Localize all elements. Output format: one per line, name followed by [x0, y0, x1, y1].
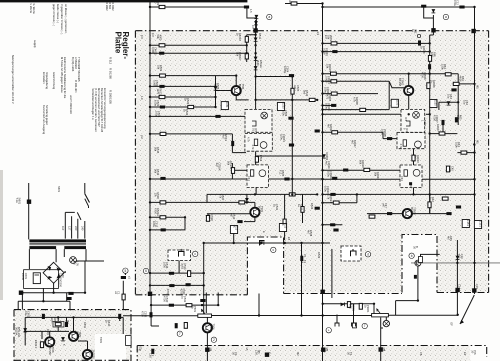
circled label F — [177, 331, 182, 336]
R col row 152.6 — [457, 152, 474, 154]
svg-text:EF: EF — [450, 323, 454, 327]
capacitor C509 — [284, 178, 289, 181]
transistor T601 — [45, 337, 54, 346]
L vert 246.7 — [247, 35, 256, 62]
resistor R601A — [159, 5, 165, 8]
capacitor C506 — [288, 117, 293, 120]
svg-text:M2: M2 — [296, 352, 300, 356]
resistor R3920 — [412, 155, 415, 161]
mains: left lead — [28, 183, 30, 239]
svg-text:100u: 100u — [324, 103, 328, 109]
svg-text:10u: 10u — [446, 94, 450, 99]
block row 331.4 — [50, 331, 88, 350]
potentiometer P3901 — [372, 309, 389, 317]
diode D601 — [23, 328, 27, 332]
fuse F1 — [300, 256, 303, 261]
L row 107 — [150, 106, 216, 108]
svg-text:3.2: 3.2 — [140, 135, 144, 139]
svg-text:IC1: IC1 — [404, 117, 408, 122]
capacitor C515 — [169, 284, 174, 287]
capacitor C512 — [161, 228, 166, 231]
capacitor C513B — [237, 220, 242, 223]
svg-text:M8: M8 — [209, 348, 213, 352]
T3902 emitter collector — [408, 74, 410, 115]
svg-text:+: + — [328, 328, 330, 332]
selector leads — [65, 212, 85, 238]
svg-text:supply: supply — [33, 40, 37, 48]
svg-text:4u7: 4u7 — [221, 135, 225, 140]
T501 collector — [236, 95, 249, 100]
resistor R42 — [428, 202, 431, 208]
diode in notch1 — [260, 241, 264, 245]
svg-text:100u: 100u — [326, 171, 330, 177]
vert 218.2 — [217, 293, 219, 306]
resistor R521A — [160, 216, 166, 219]
T501 emitter — [235, 76, 237, 87]
svg-text:56k: 56k — [226, 161, 230, 166]
connector L151d — [474, 221, 481, 229]
capacitor R514 — [231, 141, 234, 146]
svg-text:M 5 bzw. M 105 gegen Masse: M 5 bzw. M 105 gegen Masse — [60, 57, 64, 93]
L row 97 — [150, 96, 216, 98]
svg-text:1000u: 1000u — [21, 273, 25, 281]
circle letters — [125, 15, 448, 342]
capacitor C3908 — [387, 137, 392, 140]
bottom mid row 303.8 — [323, 303, 374, 305]
svg-text:R3907: R3907 — [436, 124, 440, 132]
svg-text:9.0: 9.0 — [140, 35, 144, 39]
capacitor C605 — [65, 322, 68, 327]
svg-text:53k: 53k — [325, 64, 329, 69]
resistor R601T — [122, 294, 125, 300]
capacitor C3906 — [428, 64, 431, 69]
svg-text:4700: 4700 — [166, 289, 170, 295]
hook in dashed box L — [179, 249, 185, 257]
svg-text:4u7: 4u7 — [324, 161, 328, 166]
svg-text:beide masse [--]: beide masse [--] — [56, 4, 60, 24]
pad mains left — [19, 291, 23, 295]
resistor R3914 — [333, 201, 339, 204]
svg-text:53k: 53k — [156, 65, 160, 70]
svg-text:150k: 150k — [454, 142, 458, 148]
capacitor C47 — [387, 212, 392, 215]
resistor R64 — [445, 73, 451, 76]
vert 151.1 — [151, 295, 159, 326]
svg-text:b: b — [411, 254, 413, 258]
notch2 border — [402, 235, 437, 293]
capacitor C12 — [459, 6, 464, 9]
svg-text:4.7k: 4.7k — [251, 145, 255, 151]
svg-text:100u: 100u — [154, 111, 158, 117]
resistor R608 — [40, 342, 43, 348]
top right wire — [323, 7, 474, 35]
resistor R43 — [442, 197, 448, 200]
svg-text:10u: 10u — [462, 100, 466, 105]
notch2 transistor drop — [396, 266, 418, 300]
svg-text:56k: 56k — [373, 172, 377, 177]
svg-text:R529: R529 — [317, 252, 321, 259]
capacitor C3912 — [330, 223, 335, 226]
L row 229.9 — [150, 229, 185, 231]
notch1 hook — [260, 241, 265, 246]
R row 170.3 — [323, 169, 401, 171]
stipple: main board region — [135, 31, 488, 295]
svg-text:9.0: 9.0 — [151, 33, 155, 37]
svg-text:BC158: BC158 — [75, 331, 79, 339]
svg-text:4k7: 4k7 — [350, 140, 354, 145]
svg-text:C30: C30 — [322, 348, 326, 353]
resistor R520 — [239, 201, 245, 204]
svg-text:2: 2 — [213, 338, 215, 342]
strip pad 1 — [205, 348, 209, 352]
R row 213.6 — [367, 213, 449, 215]
svg-text:C3200/2200: C3200/2200 — [58, 273, 62, 288]
L row 99.9 — [256, 99, 318, 101]
L row 273.1 — [150, 272, 204, 274]
box around C601 — [24, 270, 59, 289]
white inner area of power block — [95, 334, 126, 361]
diode D514 — [245, 198, 249, 202]
svg-text:1151: 1151 — [396, 100, 400, 106]
circled label 5 — [123, 268, 128, 273]
R col vert 458.2 — [457, 84, 459, 125]
T3904 thin circle — [383, 320, 389, 326]
svg-text:127: 127 — [68, 226, 72, 231]
pad bus bottom — [321, 290, 325, 294]
resistor R3908B — [360, 108, 366, 111]
svg-text:41u: 41u — [24, 311, 28, 316]
circle5 stub — [123, 273, 125, 309]
block row 317.4 — [25, 316, 123, 318]
svg-text:1000p: 1000p — [283, 66, 287, 74]
resistor R522 — [188, 105, 194, 108]
resistor R502 — [160, 74, 166, 77]
row 262.9 long (faint) — [411, 262, 500, 264]
svg-text:BC158: BC158 — [238, 84, 242, 92]
pot1 chain — [206, 293, 207, 361]
svg-text:L151: L151 — [466, 220, 470, 226]
L vert 232.4 low — [231, 163, 233, 179]
resistor R516 — [255, 156, 258, 162]
resistor R3904 — [331, 72, 337, 75]
R col row 83.9 — [453, 74, 475, 84]
power block right box — [126, 336, 132, 346]
EF diagonal — [460, 295, 474, 324]
svg-text:TL1: TL1 — [278, 170, 282, 175]
capacitor C606 — [66, 297, 71, 300]
pad 474 — [472, 288, 476, 292]
IC box U3902b right — [397, 133, 425, 149]
R row 224.8 — [323, 224, 343, 226]
transistor glyph in Rbox2 — [415, 141, 422, 148]
resistor R531 — [186, 304, 192, 307]
svg-text:BC158: BC158 — [398, 78, 402, 86]
pad right bus — [471, 29, 475, 33]
switch S601 diag1 — [85, 194, 90, 203]
row 301.2 — [18, 300, 70, 302]
resistor R3902A — [245, 53, 248, 59]
L row 75.6 — [150, 75, 236, 77]
transistor glyph in Lbox2 — [260, 142, 267, 149]
R row 194.4 long — [323, 193, 475, 195]
right mid bus — [429, 35, 431, 214]
svg-text:Gleichrichtung: Gleichrichtung — [52, 72, 56, 90]
svg-text:100u: 100u — [279, 134, 283, 140]
capacitor C3909 — [332, 177, 337, 180]
transistor T504 — [203, 323, 212, 332]
capacitor C3907 — [442, 120, 445, 125]
power verticals — [18, 261, 85, 310]
L row 285.4 — [150, 284, 204, 286]
svg-text:C15: C15 — [475, 284, 479, 289]
IC box U501a left — [245, 109, 272, 132]
L vert 203.7 — [203, 243, 205, 315]
svg-text:T.1A: T.1A — [15, 198, 19, 203]
svg-text:17k: 17k — [218, 194, 222, 199]
svg-text:C30: C30 — [148, 353, 152, 358]
svg-text:D: D — [409, 185, 413, 187]
svg-text:B (20)-1306: B (20)-1306 — [71, 57, 75, 72]
resistor R3907 — [439, 132, 445, 135]
diode C13 — [456, 256, 460, 260]
svg-text:an Masse [--] gemessen,: an Masse [--] gemessen, — [64, 4, 68, 34]
svg-text:u47: u47 — [207, 215, 211, 220]
junction blob C601b — [42, 314, 45, 319]
svg-text:4k7: 4k7 — [446, 236, 450, 241]
L row 53.2 — [150, 52, 247, 54]
resistor R3932 — [359, 303, 362, 309]
R vert 429.7 low — [429, 194, 431, 213]
L vert hooks — [178, 257, 180, 274]
svg-text:d: d — [367, 253, 369, 257]
svg-text:u47: u47 — [381, 203, 385, 208]
svg-text:0.068: 0.068 — [324, 76, 328, 83]
capacitor C3911 — [456, 206, 461, 209]
diode D503 — [214, 86, 218, 90]
capacitor C514 — [188, 271, 191, 277]
svg-text:Kurzschluß am Ausgang: Kurzschluß am Ausgang — [42, 105, 46, 135]
capacitor C503 — [160, 106, 165, 109]
svg-text:9.0: 9.0 — [251, 25, 255, 29]
circled label A left — [267, 14, 272, 19]
svg-text:5k6: 5k6 — [302, 90, 306, 95]
connector S1153 — [430, 100, 437, 108]
IC box U3903 right — [400, 165, 422, 187]
capacitor C3911B — [446, 212, 451, 215]
svg-text:1A3: 1A3 — [300, 254, 304, 259]
connector 1153 — [277, 103, 284, 111]
capacitor C521 — [283, 219, 286, 225]
svg-text:220: 220 — [74, 226, 78, 231]
svg-text:7: 7 — [179, 332, 181, 336]
pad left bus bottom — [148, 292, 152, 296]
svg-text:u47: u47 — [293, 85, 297, 90]
notch2 transistor — [415, 260, 421, 266]
svg-text:17k: 17k — [326, 195, 330, 200]
IC box U3902a right — [401, 109, 425, 132]
svg-text:L151: L151 — [478, 221, 482, 227]
svg-text:7: 7 — [364, 324, 366, 328]
svg-text:1000: 1000 — [162, 262, 166, 268]
border main right — [488, 31, 490, 293]
L row 221.6 — [244, 221, 255, 223]
fuse black square T.1A — [27, 200, 31, 204]
blob in Rbox3 — [409, 182, 412, 185]
resistor R521 — [301, 207, 304, 213]
svg-text:4k7: 4k7 — [456, 115, 460, 120]
diode D500b — [254, 21, 258, 25]
top feed drop left w/ diode chain — [247, 7, 257, 31]
svg-text:M2: M2 — [66, 320, 70, 324]
capacitor C601 — [33, 273, 40, 284]
svg-text:1.9: 1.9 — [140, 96, 144, 100]
svg-text:V gegenüber Chassis [--],: V gegenüber Chassis [--], — [60, 4, 64, 35]
svg-text:9.0: 9.0 — [324, 35, 328, 39]
capacitor C502 — [159, 85, 164, 88]
R row 73.7 — [323, 73, 459, 75]
svg-text:M5: M5 — [476, 85, 480, 89]
pot2 chain — [380, 318, 382, 361]
IC box U502 left — [247, 165, 269, 188]
capacitor C4002 — [159, 52, 164, 55]
left winding leads — [29, 249, 56, 269]
svg-text:0.068: 0.068 — [151, 47, 155, 54]
circled label B — [409, 253, 414, 258]
svg-text:4k15: 4k15 — [213, 83, 217, 89]
potentiometer P501 — [198, 310, 212, 318]
transformer primary bar — [29, 239, 86, 242]
tiny circle below border right — [417, 34, 420, 37]
svg-text:1153: 1153 — [434, 100, 438, 106]
L vert 284.6 — [284, 194, 286, 240]
svg-text:C43: C43 — [247, 176, 251, 181]
svg-text:R524: R524 — [310, 203, 314, 210]
left bus — [149, 2, 151, 295]
svg-text:BF121: BF121 — [209, 324, 213, 332]
svg-text:Platte: Platte — [114, 32, 123, 54]
svg-text:C30: C30 — [254, 350, 258, 355]
strip pad 2 — [265, 353, 269, 357]
svg-text:4k15: 4k15 — [458, 76, 462, 82]
svg-text:E1: E1 — [139, 347, 143, 351]
connector 1151 — [221, 102, 228, 110]
R col row 133.6 — [430, 125, 458, 134]
svg-text:n. Werte: n. Werte — [29, 3, 33, 14]
diode D512 — [254, 57, 258, 61]
svg-text:E: E — [262, 231, 266, 233]
svg-text:4700: 4700 — [141, 311, 145, 317]
L rows 133.9 152.6 — [150, 134, 246, 153]
svg-text:M5: M5 — [476, 140, 480, 144]
border main bottom — [135, 293, 488, 295]
svg-text:a: a — [268, 15, 270, 19]
svg-text:M8: M8 — [382, 348, 386, 352]
transistor glyph in Lbox3 — [259, 170, 266, 177]
row 292.7 — [20, 292, 85, 294]
strip pad 4 — [379, 347, 383, 351]
L row 76.5 to cap — [256, 76, 293, 78]
resistor R513 — [309, 98, 315, 101]
R row 51.6 — [323, 51, 430, 53]
capacitor C11 — [418, 40, 421, 45]
resistor R3919 — [364, 168, 370, 171]
resistor R3906 — [427, 83, 430, 89]
svg-text:1u63: 1u63 — [180, 263, 184, 269]
circled label Z — [211, 337, 216, 342]
capacitor C64 — [451, 88, 456, 91]
pad left bus — [253, 28, 257, 32]
resistor R3905 — [331, 80, 337, 83]
svg-text:a: a — [445, 15, 447, 19]
svg-text:4700: 4700 — [162, 296, 166, 302]
diode D3903 — [322, 154, 326, 158]
L row 194.4 long — [207, 194, 317, 202]
L row 179 long — [150, 178, 323, 180]
svg-text:E2: E2 — [463, 352, 467, 356]
svg-text:4k05: 4k05 — [349, 303, 353, 309]
svg-text:4k7: 4k7 — [326, 124, 330, 129]
svg-text:4700: 4700 — [179, 289, 183, 295]
R row 43.4 — [323, 42, 430, 44]
far right bus — [474, 7, 476, 294]
resistor R63 — [453, 82, 459, 85]
R row 132.3 into box2 — [323, 132, 398, 138]
svg-text:T603: T603 — [89, 350, 93, 356]
R row 114.3 long — [323, 113, 403, 115]
L row 45.3 — [150, 44, 247, 46]
lamp LA601 — [70, 257, 77, 264]
pad 457 — [455, 288, 459, 292]
svg-text:20k/0.1: 20k/0.1 — [34, 340, 38, 349]
circled label D — [365, 252, 370, 257]
row 305.1 — [151, 304, 218, 306]
svg-text:R 3902: R 3902 — [105, 2, 109, 11]
connector S1151 — [391, 99, 398, 107]
block wires — [25, 317, 123, 345]
L vert 292.3 — [291, 77, 293, 195]
svg-text:4700: 4700 — [420, 72, 424, 78]
resistor R3917 — [332, 131, 338, 134]
L row 156 — [256, 155, 322, 157]
svg-text:100u: 100u — [152, 221, 156, 227]
svg-text:R 200/1305: R 200/1305 — [109, 90, 113, 104]
svg-text:5: 5 — [125, 269, 127, 273]
border main top — [135, 30, 488, 32]
svg-text:470u: 470u — [453, 0, 457, 6]
T503 emitter collector — [254, 202, 256, 221]
capacitor C532b — [184, 323, 187, 329]
lamp row right — [76, 260, 104, 262]
capacitor C507B — [315, 130, 320, 133]
diode D3930 — [341, 303, 345, 307]
resistor R44 — [461, 151, 467, 154]
plus mark — [64, 271, 66, 273]
svg-text:C43: C43 — [400, 176, 404, 181]
dashed box bottom right channel — [341, 246, 361, 261]
svg-text:C8: C8 — [419, 352, 423, 356]
resistor R518 — [160, 201, 166, 204]
transformer secondary bar 1 — [29, 246, 56, 249]
capacitor C1A — [121, 276, 126, 279]
L base row 213.8 — [207, 213, 250, 215]
notch2 small box — [419, 257, 423, 263]
svg-text:D3903: D3903 — [325, 153, 329, 161]
row 315.5 — [123, 301, 458, 316]
R row 105.4 — [323, 104, 337, 106]
circled label E — [271, 247, 276, 252]
transistor T503 — [250, 208, 259, 217]
EF arrow head — [460, 320, 464, 324]
